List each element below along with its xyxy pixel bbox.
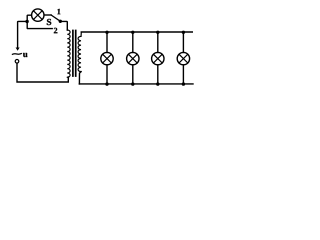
transformer core (two lamination lines) bbox=[73, 31, 76, 77]
transformer T primary winding bbox=[67, 30, 70, 77]
wire: secondary bottom stub down to bottom rail bbox=[79, 72, 81, 84]
wire: lamp EL0 right to switch contact 1 bbox=[44, 14, 51, 16]
wire: switch pole right then down to transformer primary top bbox=[61, 21, 67, 30]
label 2 bbox=[54, 28, 57, 33]
switch S arm (pole to contact 1) bbox=[51, 15, 60, 21]
wire: node A to left corner then down to AC source arrow bbox=[18, 21, 28, 47]
junction dot bottom 3 bbox=[156, 82, 159, 85]
junction dot top 1 bbox=[105, 31, 108, 34]
tilde (~) of AC supply label bbox=[12, 53, 21, 56]
transformer T secondary winding with top stub bbox=[78, 32, 81, 72]
lamp EL3 bbox=[152, 52, 164, 64]
junction dot bottom 1 bbox=[105, 82, 108, 85]
AC source arrow (current/voltage arrow into supply) bbox=[16, 48, 20, 51]
wire: top rail bbox=[81, 31, 192, 33]
junction dot top 4 bbox=[182, 31, 185, 34]
lamp branch 3 wires bbox=[157, 32, 159, 84]
label u bbox=[23, 53, 28, 57]
wire: terminal circle down, bottom return to primary bottom bbox=[17, 63, 68, 82]
lamp EL1 bbox=[101, 52, 113, 64]
lamp EL2 bbox=[127, 52, 139, 64]
label S bbox=[47, 19, 51, 25]
junction dot top 2 bbox=[131, 31, 134, 34]
junction dot bottom 2 bbox=[131, 82, 134, 85]
junction dot bottom 4 bbox=[182, 82, 185, 85]
lamp branch 4 wires bbox=[182, 32, 184, 84]
label 1 bbox=[57, 9, 60, 14]
node A junction dot bbox=[25, 20, 28, 23]
lamp branch 1 wires bbox=[106, 32, 108, 84]
lamp branch 2 wires bbox=[132, 32, 134, 84]
wire: node A up to lamp level bbox=[27, 15, 31, 21]
lamp EL4 bbox=[177, 52, 189, 64]
junction dot top 3 bbox=[156, 31, 159, 34]
wire: bottom rail bbox=[79, 83, 193, 85]
switch S pole junction dot bbox=[59, 20, 62, 23]
lamp EL0 (indicator lamp, circle with X) bbox=[32, 9, 44, 21]
wire: node A down and right to switch contact 2 bbox=[27, 22, 52, 29]
AC source terminal circle bbox=[15, 60, 19, 64]
